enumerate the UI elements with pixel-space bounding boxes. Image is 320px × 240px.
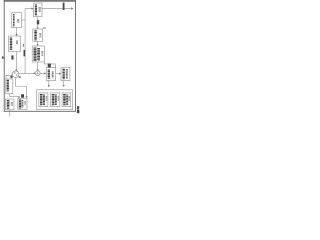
- node D: [11, 55, 13, 59]
- node E: [2, 56, 4, 58]
- node B: [63, 3, 65, 10]
- summing junction S1: [12, 71, 19, 78]
- box B2: [33, 29, 43, 41]
- box G2: [18, 98, 27, 109]
- box SUB1: [39, 93, 48, 107]
- wire: [40, 72, 44, 74]
- box E: [6, 76, 13, 94]
- wire: [48, 81, 50, 86]
- box B3: [32, 46, 44, 62]
- wire: [37, 41, 39, 44]
- wire: [16, 78, 27, 97]
- node FIG label: [77, 106, 79, 109]
- box B1: [33, 3, 42, 17]
- box SUB2: [51, 93, 60, 107]
- wire: [63, 81, 65, 86]
- wire: [19, 73, 34, 75]
- wire: [10, 94, 19, 97]
- summing junction S2: [35, 71, 40, 76]
- wire: [37, 62, 39, 69]
- box C: [46, 64, 55, 81]
- wire: [42, 8, 71, 10]
- wire: [56, 73, 60, 75]
- node C: [23, 44, 24, 47]
- node F: [37, 20, 39, 24]
- wire: [32, 7, 34, 9]
- wire: [6, 75, 11, 79]
- node A: [24, 50, 26, 57]
- wire: [25, 9, 31, 74]
- wire: [9, 110, 11, 117]
- node B2 ref: [43, 27, 45, 29]
- box A: [12, 13, 22, 28]
- wire: [15, 52, 17, 70]
- node G: [19, 76, 21, 78]
- wire: [37, 17, 39, 28]
- wire: [16, 28, 18, 35]
- wire: [22, 19, 26, 21]
- box D: [61, 68, 70, 81]
- box F: [6, 99, 14, 110]
- wire: [45, 62, 56, 68]
- container box: [37, 90, 73, 110]
- box A2: [9, 36, 21, 52]
- node H: [21, 94, 24, 97]
- box SUB3: [62, 93, 71, 107]
